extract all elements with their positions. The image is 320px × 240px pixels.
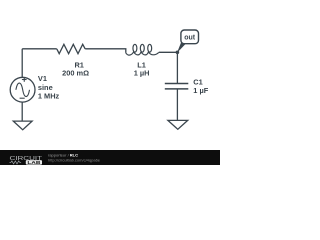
svg-text:http://circuitlab.com/c/4qpa6e: http://circuitlab.com/c/4qpa6e (48, 158, 101, 163)
wire (21, 49, 23, 78)
wire (22, 48, 57, 50)
ground (V1) (13, 121, 32, 130)
ground (C1) (168, 120, 188, 129)
wire (21, 102, 23, 121)
inductor L1 (126, 44, 159, 55)
out flag box (181, 30, 199, 44)
CircuitLab logo (0, 0, 220, 165)
wire (85, 49, 126, 53)
out flag tail (177, 43, 187, 53)
voltage source V1 (10, 77, 35, 102)
wire (159, 51, 178, 53)
capacitor C1 (165, 84, 189, 89)
footer bar (0, 150, 220, 165)
svg-text:LAB: LAB (27, 160, 40, 165)
resistor R1 (57, 44, 85, 53)
wire (176, 52, 178, 83)
wire (176, 89, 178, 120)
node out junction (176, 51, 180, 55)
